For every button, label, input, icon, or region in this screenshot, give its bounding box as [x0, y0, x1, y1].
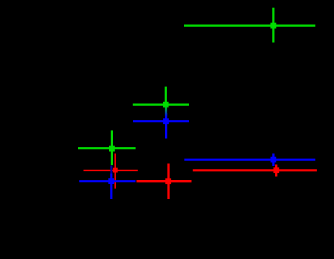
green point G2 (middle cluster)	[133, 87, 189, 108]
blue point B4 (right)	[184, 154, 315, 167]
blue point B3 (lower left cluster)	[79, 166, 135, 200]
blue point B2 (middle cluster, below G2)	[133, 113, 189, 139]
green-to-blue overlap of G2 lower bar and B2 upper bar	[165, 106, 167, 117]
red point R3 (thin, lower left cluster)	[84, 154, 138, 189]
green point G1 (top right)	[184, 8, 315, 43]
green point G3 (lower left cluster)	[78, 130, 136, 165]
red point R5 (right, below B4)	[193, 165, 317, 177]
red point R4 (center bottom)	[137, 164, 192, 200]
